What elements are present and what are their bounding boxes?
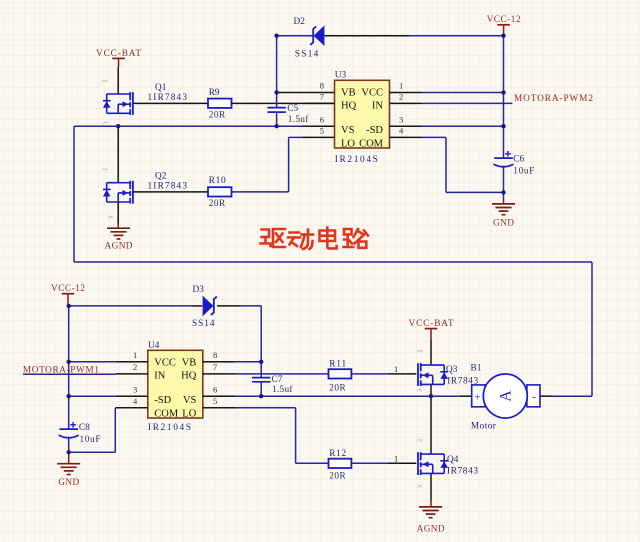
svg-text:1IR7843: 1IR7843: [148, 93, 188, 103]
wire VB column (D2 down to C5, to VS): [276, 36, 278, 127]
diode D2: [294, 17, 325, 59]
ground AGND (top): [105, 228, 133, 251]
svg-text:6: 6: [320, 114, 324, 124]
wire left rail down: [73, 126, 75, 262]
svg-text:VCC-BAT: VCC-BAT: [96, 49, 141, 59]
svg-text:IN: IN: [154, 370, 165, 381]
svg-text:VS: VS: [341, 125, 355, 136]
svg-text:VCC-12: VCC-12: [487, 15, 521, 25]
svg-text:-SD: -SD: [366, 125, 383, 136]
U4 pin 1: [116, 350, 148, 362]
svg-text:5: 5: [213, 396, 217, 406]
svg-text:R12: R12: [329, 449, 346, 459]
svg-text:-SD: -SD: [154, 395, 171, 406]
capacitor C8: [59, 422, 101, 445]
wire bottom cross run: [74, 261, 592, 263]
svg-text:1: 1: [399, 81, 403, 91]
wire right rail down to motor: [591, 262, 593, 396]
svg-text:HQ: HQ: [341, 100, 357, 111]
capacitor C6: [494, 151, 535, 176]
transistor Q4: [417, 439, 479, 488]
svg-text:1: 1: [133, 350, 137, 360]
U3 pin 3: [390, 114, 422, 126]
svg-text:AGND: AGND: [105, 242, 133, 252]
svg-text:3: 3: [103, 121, 110, 124]
svg-text:C6: C6: [513, 154, 524, 164]
svg-text:6: 6: [213, 384, 217, 394]
wire R11 to Q3 gate: [351, 364, 416, 374]
junction dots (bottom): [67, 304, 434, 455]
junction dots (top): [116, 34, 506, 195]
svg-text:2: 2: [102, 168, 109, 171]
U3 pin 2: [390, 92, 422, 104]
resistor R9: [208, 88, 232, 121]
svg-text:LO: LO: [182, 408, 196, 419]
wire VCC-12 rail: [503, 36, 505, 199]
svg-text:3: 3: [417, 485, 424, 488]
svg-text:10uF: 10uF: [80, 435, 101, 445]
svg-text:1: 1: [394, 454, 398, 464]
svg-text:R9: R9: [209, 88, 220, 98]
svg-text:VCC: VCC: [154, 358, 176, 369]
svg-text:D2: D2: [294, 17, 306, 27]
svg-text:2: 2: [417, 349, 424, 352]
svg-text:C5: C5: [287, 104, 298, 114]
svg-text:2: 2: [133, 362, 137, 372]
U3 pin 7: [303, 92, 335, 104]
motor B1: [471, 364, 541, 432]
svg-text:20R: 20R: [329, 384, 346, 394]
svg-text:B1: B1: [471, 364, 482, 374]
title text 驱动电路 (drive circuit): [261, 228, 369, 250]
svg-text:D3: D3: [193, 285, 205, 295]
svg-text:2: 2: [399, 92, 403, 102]
svg-text:20R: 20R: [329, 471, 346, 481]
svg-text:GND: GND: [493, 218, 514, 228]
power port VCC-BAT (bottom): [409, 319, 454, 340]
U3 pin 5: [303, 126, 335, 138]
svg-text:3: 3: [133, 384, 137, 394]
wire VB node to D2: [277, 35, 314, 37]
wire U4 HQ to R11: [236, 373, 329, 375]
wire U3 COM down to GND node: [422, 137, 504, 192]
wire phase node long run (VS row): [74, 125, 303, 127]
svg-text:GND: GND: [58, 478, 79, 488]
wire U4 LO to R12: [236, 408, 329, 464]
transistor Q3: [417, 349, 479, 392]
wire rail to U4 VCC: [69, 361, 116, 363]
svg-text:Q1: Q1: [155, 83, 167, 93]
wire R9 to U3 pin 7: [232, 102, 335, 104]
resistor R10: [208, 176, 232, 209]
svg-text:U4: U4: [148, 341, 160, 351]
svg-text:LO: LO: [341, 138, 355, 149]
U4 pin 7: [203, 362, 236, 374]
wire VCC-12 rail (bottom): [68, 306, 70, 452]
U4 pin 8: [203, 350, 236, 362]
U3 pin 8: [277, 81, 335, 93]
wire Q2 drain up to phase node: [117, 126, 119, 183]
svg-text:MOTORA-PWM2: MOTORA-PWM2: [514, 94, 593, 104]
wire R10 to U3 LO: [232, 137, 303, 192]
svg-text:Q4: Q4: [447, 455, 459, 465]
svg-text:7: 7: [213, 362, 217, 372]
capacitor C5: [267, 104, 309, 125]
svg-text:VCC-BAT: VCC-BAT: [409, 319, 454, 329]
svg-text:IN: IN: [372, 100, 383, 111]
wire rail to U4 -SD: [69, 395, 116, 397]
svg-text:2: 2: [102, 79, 109, 82]
svg-text:8: 8: [320, 81, 324, 91]
svg-text:VS: VS: [183, 395, 197, 406]
svg-text:20R: 20R: [209, 199, 226, 209]
svg-text:1.5uf: 1.5uf: [288, 114, 309, 125]
svg-text:C8: C8: [79, 423, 90, 433]
wire U3 VCC to rail: [422, 92, 504, 94]
net label MOTORA-PWM2: [514, 94, 593, 104]
svg-text:IR7843: IR7843: [447, 467, 478, 477]
svg-text:VCC-12: VCC-12: [51, 284, 85, 294]
U4 pin 5: [203, 396, 236, 408]
power port VCC-BAT (top): [96, 49, 141, 68]
svg-text:8: 8: [213, 350, 217, 360]
wire phase node down to Q4 drain: [430, 396, 432, 454]
transistor Q2: [102, 168, 188, 219]
svg-text:AGND: AGND: [417, 525, 445, 535]
svg-text:C7: C7: [272, 375, 283, 385]
U4 pin 6: [203, 384, 236, 396]
power port VCC-12 (bottom): [51, 284, 85, 304]
resistor R11: [329, 360, 352, 394]
svg-text:U3: U3: [335, 70, 347, 80]
svg-text:Motor: Motor: [471, 422, 497, 432]
wire Q2 source to AGND: [117, 202, 119, 228]
ground GND (top right): [492, 199, 515, 229]
U3 pin 4: [390, 126, 422, 138]
svg-text:3: 3: [399, 114, 403, 124]
wire rail to D3: [69, 305, 203, 307]
U4 pin 4: [116, 396, 148, 408]
U4 pin 3: [116, 384, 148, 396]
svg-text:COM: COM: [154, 408, 179, 419]
svg-text:VB: VB: [341, 88, 356, 99]
U4 pin 2: [116, 362, 148, 374]
svg-text:1.5uf: 1.5uf: [272, 384, 293, 395]
diode D3: [192, 285, 217, 329]
wire D3 to C7/VB column: [217, 306, 261, 396]
wire U3 -SD to rail: [422, 125, 504, 127]
net label MOTORA-PWM1: [23, 366, 99, 376]
wire Q1 gate to R9: [133, 102, 208, 104]
ground AGND (bottom): [417, 507, 445, 535]
U3 pin 1: [390, 81, 422, 93]
svg-text:-: -: [532, 391, 536, 403]
svg-text:2: 2: [417, 439, 424, 442]
ground GND (bottom left): [57, 454, 80, 488]
svg-text:1: 1: [394, 364, 398, 374]
wire net label to U4 IN: [23, 373, 116, 375]
svg-text:3: 3: [417, 389, 424, 392]
svg-text:+: +: [474, 392, 480, 404]
capacitor C7: [252, 375, 293, 395]
svg-text:Q2: Q2: [155, 172, 167, 182]
IC U4 IR2104S: [148, 341, 203, 433]
svg-text:VCC: VCC: [361, 88, 383, 99]
svg-text:3: 3: [108, 216, 115, 219]
svg-text:10uF: 10uF: [513, 166, 534, 176]
svg-text:1IR7843: 1IR7843: [148, 182, 188, 192]
wire Q2 gate to R10: [133, 191, 208, 193]
svg-text:SS14: SS14: [295, 49, 319, 59]
wire U3 IN to net label: [422, 102, 513, 104]
wire VCC-BAT to Q3 drain: [430, 340, 432, 366]
power port VCC-12 (top): [487, 15, 521, 34]
resistor R12: [329, 449, 352, 481]
wire Q4 source to AGND: [430, 474, 432, 507]
wire D2 to VCC-12 rail: [324, 35, 503, 37]
svg-text:4: 4: [133, 396, 138, 406]
svg-text:A: A: [498, 390, 515, 402]
U3 pin 6: [303, 114, 335, 126]
svg-text:20R: 20R: [209, 110, 226, 120]
transistor Q1: [102, 79, 188, 124]
wire VCC-BAT to Q1 drain: [117, 67, 119, 94]
svg-text:Q3: Q3: [446, 365, 458, 375]
wire U4 COM down to GND node: [69, 408, 116, 453]
svg-text:R10: R10: [209, 176, 226, 186]
wire R12 to Q4 gate: [351, 454, 416, 464]
IC U3 IR2104S: [335, 70, 390, 165]
svg-text:VB: VB: [182, 358, 197, 369]
svg-text:5: 5: [320, 126, 324, 136]
wire phase row (VS) to motor: [236, 395, 472, 397]
svg-text:COM: COM: [359, 138, 384, 149]
wire motor right to right rail: [540, 395, 592, 397]
svg-text:HQ: HQ: [181, 370, 197, 381]
svg-text:SS14: SS14: [192, 319, 215, 329]
svg-text:R11: R11: [329, 360, 346, 370]
wire Q3 source to phase node: [430, 384, 432, 396]
svg-text:7: 7: [320, 92, 324, 102]
wire U4 VB to C7 column: [236, 361, 262, 363]
